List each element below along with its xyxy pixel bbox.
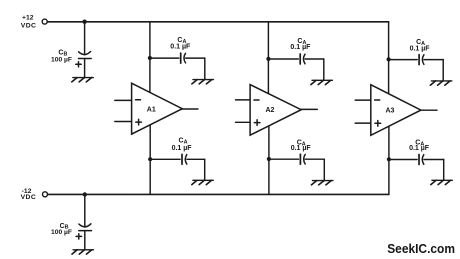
svg-text:0.1 µF: 0.1 µF: [409, 145, 430, 152]
ground (CB top): [72, 78, 94, 82]
junction A1 V+ / CA top: [148, 56, 152, 60]
wire A2 output: [301, 108, 318, 110]
wire CA top (A1) to ground lead: [186, 57, 205, 59]
wire CA bottom (A2) to ground lead: [305, 158, 324, 160]
op-amp A3: [371, 85, 421, 136]
op-amp A1: [132, 83, 183, 134]
value label CB 100uF (bottom): [51, 223, 72, 236]
wire A2 non-inverting input: [236, 121, 251, 123]
wire +12 rail to CB top: [84, 22, 86, 55]
wire +12 rail to A1 V+: [149, 22, 151, 93]
svg-text:VDC: VDC: [21, 22, 37, 29]
svg-text:+12: +12: [22, 15, 34, 22]
capacitor CA 0.1uF (A2 bottom): [300, 154, 305, 164]
junction +12 rail / CB top: [82, 20, 86, 24]
ground (A2 bottom CA): [311, 181, 333, 185]
wire A1 non-inverting input: [115, 121, 132, 123]
wire A1 output: [182, 108, 198, 110]
wire A2 V- node to CA bottom: [269, 158, 299, 160]
wire CA top (A2) to ground lead: [305, 58, 324, 60]
wire A3 inverting input: [355, 99, 371, 101]
terminal +12 VDC: [21, 15, 47, 30]
wire +12 rail to A2 V+: [267, 22, 269, 94]
junction A1 V- / CA bottom: [148, 157, 152, 161]
wire CA top (A3) ground drop: [442, 60, 444, 81]
capacitor CA 0.1uF (A3 bottom): [419, 155, 424, 165]
value label CB 100uF (top): [51, 49, 72, 63]
wire CA bottom (A3) ground drop: [443, 160, 445, 181]
capacitor CB 100uF (top): [76, 52, 91, 67]
wire -12 rail to CB bottom: [84, 195, 86, 228]
ground (A1 bottom CA): [192, 180, 214, 184]
junction A2 V- / CA bottom: [267, 157, 271, 161]
svg-text:CA: CA: [179, 137, 188, 145]
svg-text:0.1 µF: 0.1 µF: [410, 45, 431, 52]
capacitor CA 0.1uF (A1 bottom): [182, 154, 187, 164]
wire A3 V+ node to CA top: [389, 59, 418, 61]
svg-text:100 µF: 100 µF: [51, 229, 72, 236]
ground (CB bottom): [72, 250, 94, 254]
wire A1 V+ node to CA top: [150, 57, 179, 59]
ground (A3 bottom CA): [431, 180, 453, 184]
ground (A2 top CA): [311, 80, 333, 84]
junction A3 V- / CA bottom: [387, 157, 391, 161]
wire +12 V rail: [47, 21, 388, 23]
svg-text:0.1 µF: 0.1 µF: [172, 145, 193, 152]
capacitor CB 100uF (bottom): [76, 224, 91, 239]
wire A2 inverting input: [236, 99, 251, 101]
svg-text:VDC: VDC: [21, 194, 37, 201]
wire A1 V- to -12 rail: [149, 125, 151, 195]
junction A3 V+ / CA top: [387, 57, 391, 61]
svg-text:A2: A2: [266, 107, 275, 114]
svg-text:0.1 µF: 0.1 µF: [291, 145, 312, 152]
svg-text:100 µF: 100 µF: [51, 57, 72, 64]
capacitor CA 0.1uF (A2 top): [300, 54, 305, 64]
terminal -12 VDC: [21, 188, 48, 201]
wire A3 output: [420, 109, 437, 111]
wire CA bottom (A1) to ground lead: [187, 158, 205, 160]
svg-text:A1: A1: [147, 107, 156, 114]
wire A2 V+ node to CA top: [268, 58, 298, 60]
capacitor CA 0.1uF (A3 top): [419, 55, 424, 65]
wire A2 V- to -12 rail: [268, 126, 270, 194]
svg-text:0.1 µF: 0.1 µF: [290, 44, 311, 51]
wire CA bottom (A2) ground drop: [323, 159, 325, 180]
wire CA bottom (A3) to ground lead: [424, 159, 444, 161]
wire CB top to ground: [84, 59, 86, 78]
svg-text:SeekIC.com: SeekIC.com: [387, 241, 455, 256]
ground (A1 top CA): [192, 80, 214, 84]
junction A2 V+ / CA top: [266, 57, 270, 61]
wire CA bottom (A1) ground drop: [204, 159, 206, 180]
svg-text:0.1 µF: 0.1 µF: [170, 44, 191, 51]
op-amp A2: [250, 85, 301, 136]
ground (A3 top CA): [430, 81, 452, 85]
junction -12 rail / CB bottom: [83, 192, 87, 196]
wire CA top (A3) to ground lead: [424, 59, 443, 61]
wire A3 V- to -12 rail: [388, 126, 390, 194]
wire A3 V- node to CA bottom: [389, 159, 417, 161]
wire CB bottom to ground: [84, 231, 86, 250]
wire -12 V rail: [48, 193, 389, 195]
wire CA top (A1) ground drop: [204, 58, 206, 80]
capacitor CA 0.1uF (A1 top): [181, 53, 186, 63]
svg-text:A3: A3: [386, 107, 395, 114]
wire A1 inverting input: [115, 99, 132, 101]
wire A3 non-inverting input: [355, 122, 371, 124]
wire CA top (A2) ground drop: [323, 59, 325, 80]
wire +12 rail to A3 V+: [388, 22, 390, 94]
wire A1 V- node to CA bottom: [150, 158, 180, 160]
